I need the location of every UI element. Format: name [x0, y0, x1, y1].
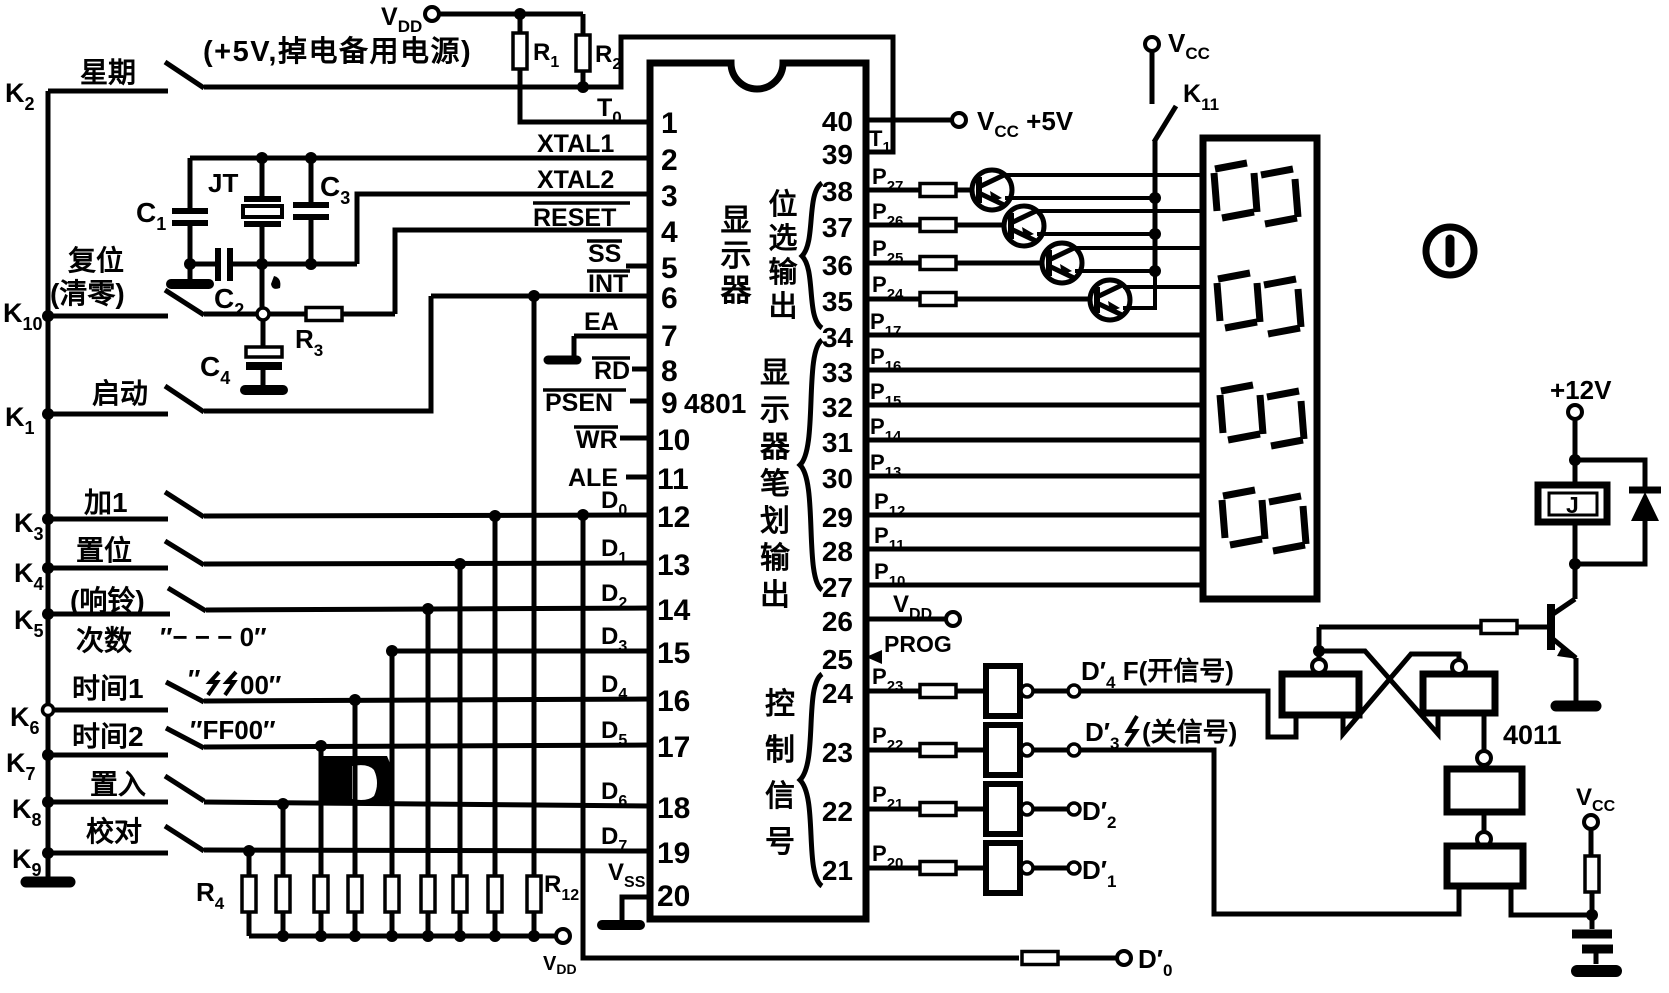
svg-text:R4: R4	[196, 877, 225, 913]
wire VDD top rail	[439, 12, 583, 17]
capacitor C4	[200, 320, 283, 390]
label SS (active low) + pin5 stub	[587, 240, 650, 268]
wire Q4 collector to display	[1123, 285, 1203, 289]
capacitor C2 (series in bottom rail)	[190, 248, 262, 320]
svg-text:30: 30	[822, 463, 853, 494]
svg-text:(关信号): (关信号)	[1142, 717, 1237, 747]
wire K10 right to circle	[204, 312, 257, 317]
svg-text:RD: RD	[594, 357, 630, 385]
wire K1 to INT	[204, 296, 431, 411]
wire pin21 + resistor	[866, 862, 986, 875]
wire R1 top lead	[518, 14, 523, 33]
ground bus bottom	[26, 877, 70, 888]
switch K6 time1	[10, 664, 281, 738]
wire D'4 to latch input	[1080, 691, 1296, 737]
svg-text:27: 27	[822, 572, 853, 603]
wire U1A output up	[1317, 627, 1322, 659]
node junction at R1 top	[514, 8, 526, 20]
wire pin34 segment line	[866, 333, 1203, 338]
svg-text:K2: K2	[5, 78, 35, 114]
wire D7 pin19	[204, 850, 650, 851]
svg-text:K10: K10	[3, 298, 43, 334]
svg-text:显示器: 显示器	[720, 203, 753, 308]
ground under C1	[171, 264, 209, 284]
node junction C1 bottom	[184, 258, 196, 270]
svg-text:4011: 4011	[1503, 720, 1562, 750]
wire pin38 + resistor	[866, 184, 979, 197]
svg-text:9: 9	[661, 387, 678, 420]
svg-text:WR: WR	[576, 426, 618, 454]
buffer box D'4	[986, 666, 1080, 716]
node junction Q3 emitter	[1149, 265, 1161, 277]
pin numbers left 1-20	[657, 107, 691, 913]
svg-text:23: 23	[822, 737, 853, 768]
switch K7 time2	[6, 715, 276, 784]
switch K4 set	[14, 534, 204, 594]
node VDD terminal (top backup supply)	[381, 3, 439, 36]
wire Q1 emitter to K11 rail	[1005, 196, 1155, 200]
svg-text:INT: INT	[588, 270, 628, 298]
wire pin23 + resistor	[866, 744, 986, 757]
node junction RC	[1586, 909, 1598, 921]
svg-text:星期: 星期	[80, 57, 136, 88]
resistor R7 column	[348, 700, 362, 936]
resistor R11 column	[488, 516, 502, 936]
resistor R8 column	[385, 651, 399, 936]
transistor Q5	[1551, 599, 1578, 659]
op IC 4801 body	[650, 63, 866, 919]
svg-text:K8: K8	[12, 794, 42, 830]
svg-text:C1: C1	[136, 197, 166, 234]
svg-text:12: 12	[657, 501, 690, 534]
node junction D1/R10	[454, 558, 466, 570]
resistor R12 column (INT pullup)	[527, 296, 579, 936]
svg-text:J: J	[1566, 492, 1579, 518]
brace pins 24-21	[800, 674, 822, 886]
wire D'3 to gate4 input	[1080, 750, 1459, 914]
gate U1A nand latch left	[1282, 674, 1359, 715]
wire D1 pin13	[204, 563, 650, 564]
gate U1D nand	[1447, 846, 1523, 886]
svg-text:36: 36	[822, 250, 853, 281]
svg-text:启动: 启动	[92, 378, 148, 409]
transistor Q2	[1004, 206, 1044, 246]
resistor R6 column	[314, 746, 328, 936]
svg-text:PROG: PROG	[884, 631, 952, 657]
svg-text:5: 5	[661, 252, 678, 285]
relay J	[1538, 485, 1607, 522]
svg-text:28: 28	[822, 536, 853, 567]
svg-text:D′4 F(开信号): D′4 F(开信号)	[1081, 656, 1234, 692]
capacitor C1	[136, 158, 208, 264]
capacitor RC	[1572, 915, 1613, 964]
transistor Q4	[1090, 280, 1130, 320]
label counts "---0"	[76, 622, 267, 656]
svg-text:C4: C4	[200, 351, 230, 388]
buffer box D'2	[986, 784, 1116, 834]
svg-text:″: ″	[188, 664, 200, 694]
wire pin24 + resistor	[866, 685, 986, 698]
svg-text:K9: K9	[12, 844, 42, 880]
svg-text:3: 3	[661, 180, 678, 213]
brace pins 38-35	[802, 183, 822, 328]
digit 1	[1214, 163, 1298, 224]
wire Q1 collector to display	[1005, 173, 1203, 177]
switch K2 week	[5, 57, 204, 114]
wire pin26 + VDD terminal	[866, 612, 960, 626]
node junction +12V	[1569, 454, 1581, 466]
wire D'0 column down	[583, 515, 1019, 958]
wire pin32 segment line	[866, 403, 1203, 408]
svg-text:34: 34	[822, 322, 854, 353]
svg-text:时间2: 时间2	[72, 721, 144, 752]
wire K11 common rail	[1153, 140, 1158, 271]
svg-text:校对: 校对	[86, 815, 142, 847]
node junction R2 bottom / K2 wire	[577, 81, 589, 93]
node junction INT pullup	[528, 290, 540, 302]
wire Q2 collector to display	[1037, 209, 1203, 213]
wire Q5 emitter down	[1574, 658, 1579, 701]
svg-text:VDD: VDD	[543, 953, 577, 977]
wire D0 pin12	[204, 515, 650, 516]
wire Q4 emitter to K11 rail	[1123, 271, 1155, 308]
wire relay bottom	[1573, 522, 1578, 599]
diode freewheel	[1575, 460, 1661, 564]
wire pin31 segment line	[866, 438, 1203, 443]
node VCC terminal (RC)	[1576, 784, 1616, 829]
svg-text:XTAL2: XTAL2	[537, 166, 614, 194]
svg-text:R12: R12	[544, 871, 579, 904]
resistor R4 column	[196, 851, 256, 936]
ground pin20	[602, 897, 650, 925]
ink blot	[271, 276, 280, 289]
svg-text:6: 6	[661, 282, 678, 315]
svg-text:显示器笔划输出: 显示器笔划输出	[759, 357, 791, 612]
svg-text:11: 11	[657, 463, 689, 496]
wire cross-couple B out to A in	[1343, 654, 1459, 734]
wire crystal node down to K10 node	[260, 264, 265, 308]
svg-text:PSEN: PSEN	[545, 389, 613, 417]
wire resistor to node	[1590, 892, 1595, 915]
svg-text:(响铃): (响铃)	[70, 584, 145, 616]
svg-text:VCC: VCC	[1576, 784, 1616, 815]
label ALE + pin11 stub	[568, 464, 650, 492]
svg-text:D′0: D′0	[1138, 944, 1172, 980]
capacitor C3	[293, 158, 350, 264]
transistor Q3	[1042, 243, 1082, 283]
node junction JT top	[256, 152, 268, 164]
svg-text:置入: 置入	[90, 769, 146, 800]
wire R2 bottom lead	[581, 71, 586, 87]
node junction D7/R4	[243, 845, 255, 857]
resistor RC pullup	[1585, 856, 1599, 892]
svg-text:2: 2	[661, 144, 678, 177]
wire VCC to resistor	[1589, 829, 1594, 857]
node junction Q1 emitter	[1149, 192, 1161, 204]
crystal JT	[208, 158, 282, 264]
wire D3 pin15	[392, 649, 650, 654]
node junction D0/D'0 column	[577, 509, 589, 521]
svg-text:SS: SS	[588, 240, 621, 268]
ink blot artifact	[319, 756, 393, 805]
resistor R9 column	[421, 609, 435, 936]
svg-text:1: 1	[661, 107, 678, 140]
svg-text:8: 8	[661, 355, 678, 388]
resistor R10 column	[453, 564, 467, 936]
label RESET (active low)	[533, 203, 630, 232]
wire cross-couple A out to B in	[1319, 651, 1438, 734]
gate U1B output bubble	[1452, 660, 1466, 674]
wire left key bus	[46, 91, 51, 879]
svg-text:VDD: VDD	[381, 3, 422, 36]
wire resistor to Q5 base	[1517, 625, 1547, 630]
transistor Q1	[972, 170, 1012, 210]
wire D2 pin14	[206, 608, 650, 610]
svg-text:20: 20	[657, 880, 690, 913]
pin numbers right 40-21	[822, 106, 854, 886]
wire crystal bottom rail	[262, 262, 357, 267]
svg-text:37: 37	[822, 212, 853, 243]
resistor base R	[1481, 621, 1517, 634]
svg-text:(清零): (清零)	[50, 278, 125, 309]
marker circled-1	[1426, 227, 1474, 275]
resistor R5 column	[276, 804, 290, 936]
buffer box D'3	[986, 725, 1080, 775]
gate U1B nand latch right	[1423, 674, 1495, 713]
digit 3	[1220, 385, 1304, 446]
wire D4 pin16	[204, 699, 650, 701]
node junction C3 bottom	[305, 258, 317, 270]
svg-text:+12V: +12V	[1550, 375, 1612, 405]
wire R2 top lead	[581, 14, 586, 35]
wire U1C input from U1D	[1482, 812, 1487, 832]
node rail junction dots	[277, 930, 540, 942]
svg-text:21: 21	[822, 855, 853, 886]
node junction D6/R5	[277, 798, 289, 810]
digit 2	[1217, 273, 1301, 334]
gate U1D output bubble	[1477, 832, 1491, 846]
label PROG pin25	[866, 631, 952, 664]
svg-text:K11: K11	[1183, 80, 1219, 114]
svg-text:17: 17	[657, 731, 690, 764]
wire Q3 collector to display	[1075, 246, 1203, 250]
gate U1C nand	[1447, 769, 1522, 812]
svg-text:39: 39	[822, 139, 853, 170]
svg-text:35: 35	[822, 286, 853, 317]
label WR (active low) + pin10 stub	[574, 426, 650, 454]
node +12V terminal	[1550, 375, 1612, 419]
wire U1D right input from RC node	[1511, 886, 1592, 915]
node junction JT bottom	[256, 258, 268, 270]
svg-text:复位: 复位	[68, 244, 124, 276]
node D'0 terminal	[1117, 944, 1172, 980]
node junction D2/R9	[422, 603, 434, 615]
wire latch output to base resistor	[1319, 625, 1482, 630]
svg-text:38: 38	[822, 176, 853, 207]
svg-text:13: 13	[657, 549, 690, 582]
label EA + ground	[548, 308, 650, 360]
svg-text:(+5V,掉电备用电源): (+5V,掉电备用电源)	[203, 35, 472, 68]
switch K1 start	[5, 378, 204, 438]
wire pin35 + resistor	[866, 293, 1097, 306]
wire pin28 segment line	[866, 547, 1203, 552]
resistor R3	[269, 308, 395, 361]
resistor R2	[576, 35, 621, 73]
label INT (active low)	[587, 270, 630, 298]
svg-text:4: 4	[661, 216, 678, 249]
svg-text:40: 40	[822, 106, 853, 137]
svg-text:″FF00″: ″FF00″	[190, 715, 276, 745]
switch K10 reset(clear)	[3, 244, 204, 334]
wire Q3 emitter to K11 rail	[1075, 269, 1155, 273]
svg-text:31: 31	[822, 427, 853, 458]
node junction D4/R7	[349, 694, 361, 706]
svg-text:25: 25	[822, 644, 853, 675]
wire Q2 emitter to K11 rail	[1037, 232, 1155, 236]
svg-text:R2: R2	[595, 41, 621, 73]
wire pin27 segment line	[866, 583, 1203, 588]
wire pin36 + resistor	[866, 257, 1049, 270]
wire K2 to R2 bottom	[204, 85, 583, 90]
node VDD terminal for pullups	[543, 929, 577, 977]
svg-text:VCC +5V: VCC +5V	[977, 106, 1074, 141]
wire pullup common rail	[249, 934, 556, 939]
svg-text:″− − − 0″: ″− − − 0″	[160, 622, 267, 652]
svg-text:33: 33	[822, 357, 853, 388]
wire pin22 + resistor	[866, 803, 986, 816]
node junction C3 top	[305, 152, 317, 164]
wire pin30 segment line	[866, 474, 1203, 479]
buffer box D'1	[986, 843, 1116, 893]
svg-text:JT: JT	[208, 168, 238, 198]
svg-text:32: 32	[822, 392, 853, 423]
svg-text:15: 15	[657, 637, 690, 670]
node junction D0/R11	[489, 510, 501, 522]
node junction latch output	[1313, 645, 1325, 657]
svg-text:00″: 00″	[240, 670, 281, 700]
wire D5 pin17	[204, 745, 650, 747]
wire D6 pin18	[204, 802, 650, 806]
node VCC +5V terminal	[952, 106, 1074, 141]
wire XTAL2 pin3	[357, 194, 650, 264]
svg-text:4801: 4801	[684, 388, 746, 419]
label PSEN (active low) + pin9 stub	[543, 389, 650, 417]
svg-text:K6: K6	[10, 702, 40, 738]
svg-text:K5: K5	[14, 605, 44, 641]
wire pin40 to VCC	[866, 118, 951, 123]
svg-text:22: 22	[822, 796, 853, 827]
resistor R1	[513, 33, 559, 71]
wire pin29 segment line	[866, 513, 1203, 518]
svg-text:K4: K4	[14, 558, 44, 594]
wire pin33 segment line	[866, 368, 1203, 373]
svg-text:18: 18	[657, 792, 690, 825]
svg-text:VSS: VSS	[608, 859, 646, 891]
svg-text:R3: R3	[295, 324, 323, 360]
label RD (active low) + pin8 stub	[592, 357, 650, 385]
svg-text:K1: K1	[5, 402, 35, 438]
node VCC terminal above K11	[1145, 28, 1210, 63]
svg-text:10: 10	[657, 424, 690, 457]
svg-text:置位: 置位	[76, 534, 132, 566]
switch K3 add1	[14, 487, 204, 544]
wire INT pin6	[431, 294, 650, 299]
wire pin37 + resistor	[866, 219, 1011, 232]
wire loop to T1 pin39	[583, 37, 893, 152]
gate U1A output bubble	[1312, 659, 1326, 673]
svg-text:7: 7	[661, 320, 678, 353]
switch K11	[1154, 80, 1219, 142]
switch K8 load	[12, 769, 204, 830]
svg-text:K7: K7	[6, 748, 36, 784]
svg-text:26: 26	[822, 606, 853, 637]
wire R1 bottom to pin1	[520, 69, 650, 122]
wire to D'0 terminal	[1058, 956, 1117, 961]
svg-text:19: 19	[657, 837, 690, 870]
wire U1B input from U1C	[1482, 713, 1487, 751]
svg-text:D′2: D′2	[1082, 796, 1116, 832]
node junction Q2 emitter	[1149, 228, 1161, 240]
svg-text:次数: 次数	[76, 625, 133, 656]
wire +12V down	[1573, 419, 1578, 485]
svg-text:D′1: D′1	[1082, 855, 1116, 891]
node junction D3/R8	[386, 645, 398, 657]
node junction D5/R6	[315, 740, 327, 752]
svg-text:XTAL1: XTAL1	[537, 130, 614, 158]
svg-text:K3: K3	[14, 508, 44, 544]
brace pins 34-27	[800, 340, 822, 590]
svg-text:RESET: RESET	[533, 204, 616, 232]
svg-text:24: 24	[822, 678, 854, 709]
switch K9 adjust	[12, 815, 204, 880]
svg-text:EA: EA	[584, 308, 619, 336]
ground Q5 emitter	[1556, 701, 1596, 712]
gate U1C output bubble	[1477, 751, 1491, 765]
node open junction C4 / K10	[257, 308, 269, 320]
wire RESET pin4	[395, 230, 650, 314]
wire XTAL1 pin2	[190, 156, 650, 161]
svg-text:时间1: 时间1	[72, 673, 144, 704]
resistor D'0 series	[1022, 952, 1058, 965]
svg-text:14: 14	[657, 594, 691, 627]
svg-text:加1: 加1	[84, 487, 128, 518]
switch K5 bell	[14, 584, 206, 641]
digit 4	[1222, 490, 1306, 551]
svg-text:VCC: VCC	[1168, 28, 1210, 63]
ground RC	[1577, 965, 1616, 977]
wire VCC down	[1150, 51, 1155, 104]
svg-text:R1: R1	[533, 39, 559, 71]
svg-text:29: 29	[822, 502, 853, 533]
svg-text:16: 16	[657, 685, 690, 718]
display 4-digit 7-segment block	[1203, 138, 1317, 599]
node junction relay bottom	[1569, 558, 1581, 570]
